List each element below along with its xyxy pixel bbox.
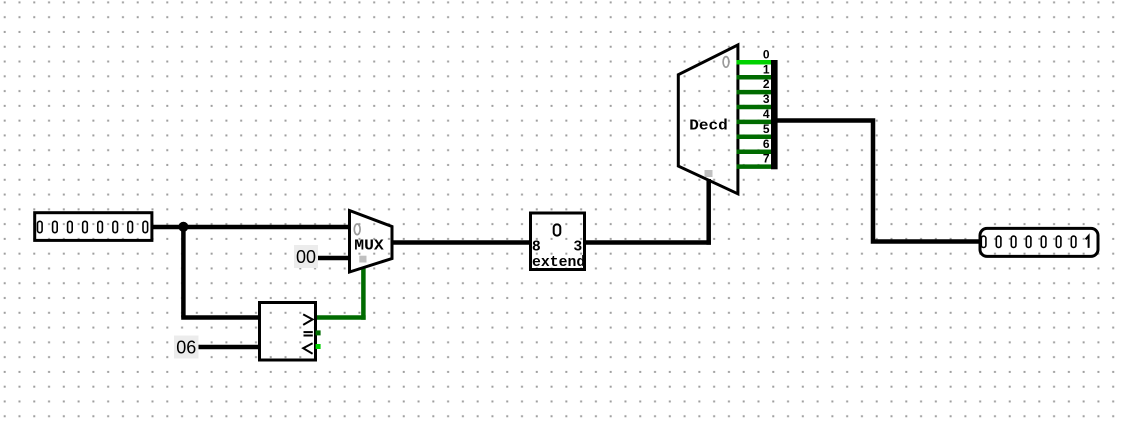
svg-text:1: 1: [763, 62, 770, 76]
splitter bit label 3: [763, 92, 770, 106]
wire bit extender output: [586, 240, 711, 245]
wire decoder output 3: [737, 105, 772, 110]
constant 06: [174, 336, 199, 359]
comparator: [260, 303, 316, 361]
wire decoder output 5: [737, 135, 772, 140]
splitter bit label 7: [763, 152, 770, 166]
wire decoder output 6: [737, 149, 772, 154]
wire from junction down to comparator row: [181, 227, 186, 318]
svg-text:4: 4: [763, 107, 770, 121]
wire from input pin to MUX input 0: [152, 225, 351, 230]
svg-text:Decd: Decd: [689, 119, 728, 135]
constant 00: [294, 245, 318, 268]
svg-text:8: 8: [532, 239, 541, 255]
wire into comparator input A: [181, 315, 260, 320]
comparator equal output pin (false, dark green): [316, 330, 321, 335]
splitter bit label 6: [763, 137, 770, 151]
wire decoder output 4: [737, 120, 772, 125]
decoder Decd: [678, 45, 738, 194]
wire decoder output 1: [737, 75, 772, 80]
wire junction: [178, 222, 188, 232]
svg-text:0: 0: [763, 47, 770, 61]
svg-text:6: 6: [763, 137, 770, 151]
splitter bit label 0: [763, 47, 770, 61]
output pin 00000001: [980, 228, 1098, 256]
comparator less output pin (true, bright green): [316, 344, 321, 349]
wire from constant 00 to MUX input 1: [317, 256, 351, 261]
svg-text:5: 5: [763, 122, 770, 136]
wire MUX output to bit extender: [392, 240, 530, 245]
svg-text:3: 3: [763, 92, 770, 106]
svg-text:00: 00: [296, 247, 316, 267]
splitter spine: [771, 60, 778, 169]
svg-text:extend: extend: [532, 255, 585, 271]
splitter bit label 2: [763, 77, 770, 91]
wire from constant 06 to comparator input B: [197, 345, 260, 350]
bit extender: [531, 213, 586, 271]
splitter bit label 1: [763, 62, 770, 76]
wire decoder output 0 (true, bright green): [737, 60, 772, 65]
wire up to decoder select: [706, 179, 711, 245]
wire from splitter to output pin: [778, 121, 982, 242]
svg-text:06: 06: [176, 338, 196, 358]
wire decoder output 2: [737, 90, 772, 95]
splitter bit label 4: [763, 107, 770, 121]
input pin 00000000: [35, 213, 152, 241]
svg-text:3: 3: [573, 240, 582, 256]
svg-text:7: 7: [763, 152, 770, 166]
wire (green) MUX select vertical: [361, 267, 366, 320]
wire decoder output 7: [737, 164, 772, 169]
svg-text:2: 2: [763, 77, 770, 91]
mux MUX: [350, 211, 393, 273]
splitter bit label 5: [763, 122, 770, 136]
wire (green) comparator greater output to MUX select, horizontal: [316, 315, 366, 320]
svg-text:MUX: MUX: [354, 237, 384, 254]
